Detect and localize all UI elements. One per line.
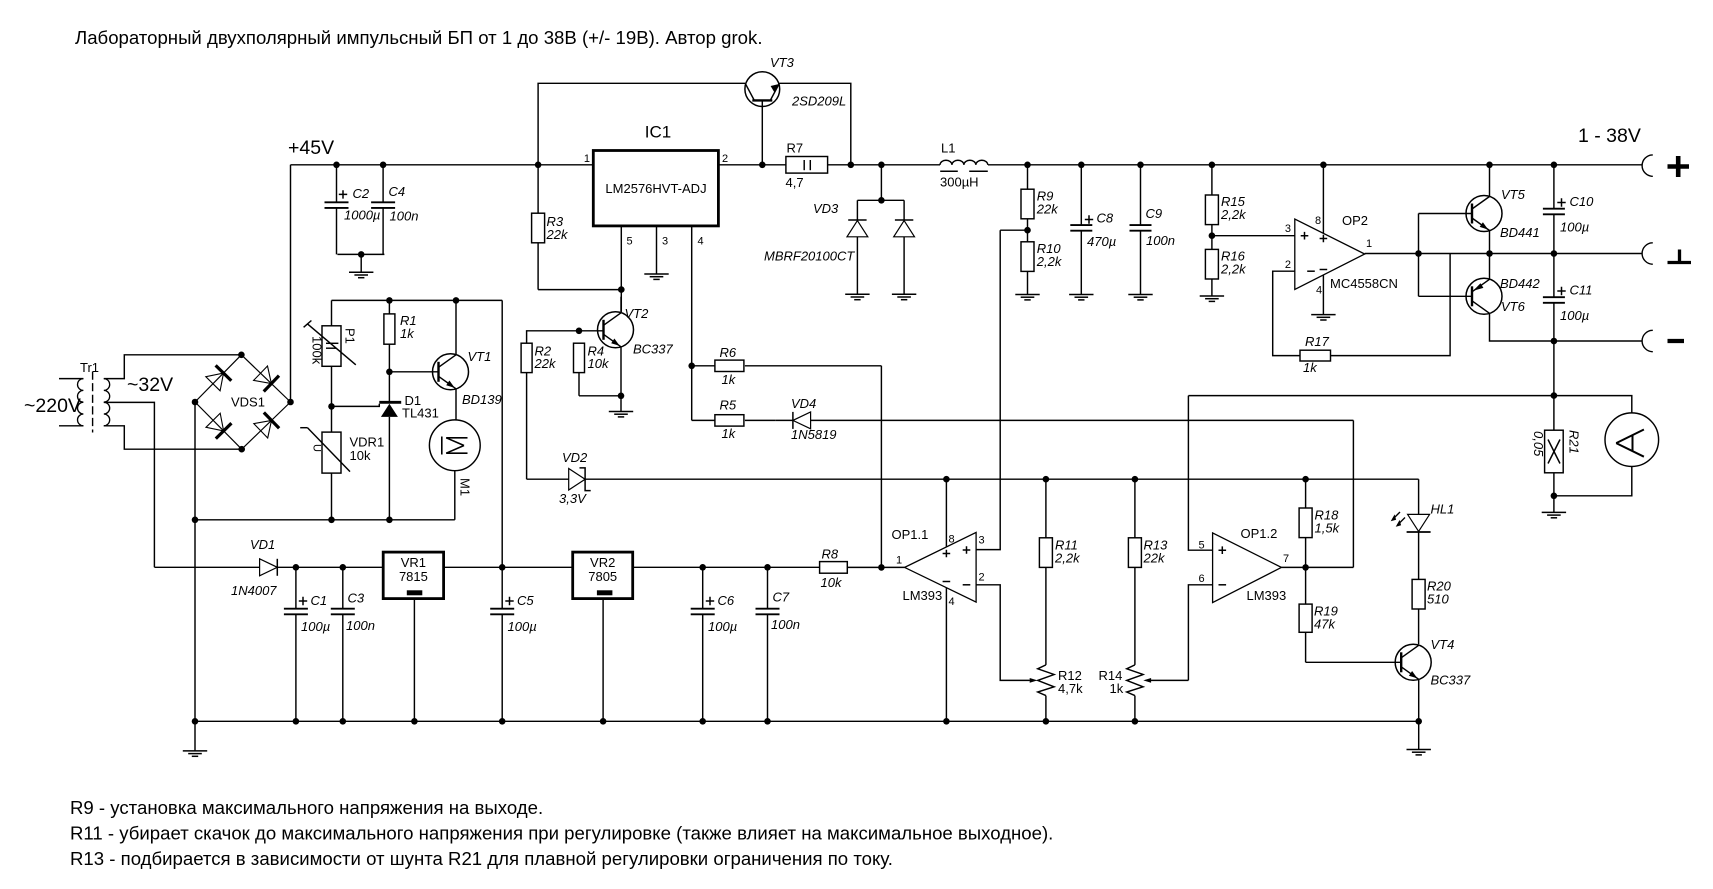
resistor R5 1k: [692, 398, 776, 442]
svg-text:U: U: [311, 444, 323, 452]
label 3,3V: [559, 491, 587, 506]
svg-text:R9 - установка максимального н: R9 - установка максимального напряжения …: [70, 797, 543, 818]
svg-text:MC4558CN: MC4558CN: [1330, 276, 1398, 291]
svg-text:22k: 22k: [1036, 202, 1059, 217]
svg-text:6: 6: [1199, 573, 1205, 585]
svg-text:L1: L1: [941, 141, 955, 156]
node IC1 pin5 wire: [618, 286, 625, 293]
wire +15V riser to P1 rail: [332, 300, 503, 567]
svg-text:LM393: LM393: [903, 588, 943, 603]
svg-text:BC337: BC337: [633, 342, 674, 357]
node VT5 emitter mid rail: [1486, 250, 1493, 257]
potentiometer P1 100k: [304, 300, 358, 406]
svg-text:470µ: 470µ: [1087, 234, 1116, 249]
label TL431: [402, 406, 439, 421]
node C1 top: [293, 564, 300, 571]
note R13: [70, 848, 893, 869]
node R3 top / VT3 collector wire: [535, 162, 542, 169]
svg-text:1: 1: [896, 555, 902, 567]
wire VT1 base: [389, 371, 438, 373]
wire secondary center tap down to VD1 line: [104, 402, 155, 567]
pin 2 label OP1.1: [979, 572, 985, 584]
label VD3: [813, 201, 839, 216]
svg-text:100n: 100n: [771, 617, 800, 632]
svg-text:C3: C3: [348, 591, 365, 606]
label VD1: [250, 537, 275, 552]
pin 7 label OP1.2: [1283, 553, 1289, 565]
svg-text:BD139: BD139: [462, 392, 502, 407]
wire VT5 collector to rail: [1489, 165, 1491, 197]
resistor R8 10k: [820, 547, 905, 591]
node R15 top: [1209, 162, 1216, 169]
svg-text:1k: 1k: [722, 372, 737, 387]
svg-text:100n: 100n: [1146, 233, 1175, 248]
svg-text:VT4: VT4: [1431, 637, 1455, 652]
inductor L1 300uH: [940, 141, 988, 190]
resistor R15: [1205, 165, 1247, 250]
wire OP2 pin4 to ground: [1322, 275, 1324, 315]
svg-text:R5: R5: [720, 398, 737, 413]
node ground rail R12: [1043, 718, 1050, 725]
wire C2 C4 common to ground: [337, 251, 384, 272]
ground symbol VT2: [609, 396, 633, 417]
svg-text:22k: 22k: [1143, 551, 1166, 566]
svg-text:2SD209L: 2SD209L: [791, 94, 846, 109]
node VT5 collector: [1486, 162, 1493, 169]
svg-text:C9: C9: [1146, 206, 1163, 221]
svg-text:2: 2: [979, 572, 985, 584]
bridge node top: [238, 352, 245, 359]
resistor R4: [574, 343, 610, 372]
shunt regulator D1 TL431: [332, 372, 402, 520]
svg-text:VD3: VD3: [813, 201, 839, 216]
label VT2: [625, 306, 650, 321]
node D1 bottom rail: [386, 517, 393, 524]
label BD441: [1500, 225, 1540, 240]
svg-text:100n: 100n: [390, 209, 419, 224]
node ground rail OP1.1 pin4: [943, 718, 950, 725]
label HL1: [1431, 502, 1455, 517]
diode VD1 1N4007: [154, 559, 383, 576]
ground symbol R10: [1015, 295, 1039, 300]
svg-text:C4: C4: [389, 184, 406, 199]
capacitor C11 100u: [1543, 254, 1592, 342]
svg-text:2: 2: [722, 153, 728, 165]
diode VD4 1N5819: [775, 412, 1353, 429]
node IC1 pin4 / R6: [688, 363, 695, 370]
pin 3 label OP1.1: [979, 535, 985, 547]
svg-text:P1: P1: [343, 328, 358, 344]
ammeter PA1 wires: [1554, 396, 1632, 496]
svg-text:R6: R6: [720, 345, 737, 360]
svg-text:VT3: VT3: [770, 55, 795, 70]
ground symbol C8: [1069, 295, 1093, 300]
voltage regulator VR2 7805: [573, 552, 633, 599]
node R21 bottom: [1551, 493, 1558, 500]
node ground rail C3: [340, 718, 347, 725]
wire R7 to rail nodes: [828, 164, 940, 166]
wire VT5 base: [1419, 213, 1473, 215]
svg-text:+45V: +45V: [288, 137, 334, 159]
svg-text:7815: 7815: [399, 569, 428, 584]
ground symbol IC1 pin3: [644, 274, 668, 279]
label 1N5819: [791, 427, 837, 442]
wire VT3 emitter to R7 right node: [779, 83, 850, 165]
node VT1 collector: [453, 297, 460, 304]
pin 1 label IC1: [584, 153, 590, 165]
label MBRF20100CT: [764, 249, 855, 264]
label OP2: [1342, 213, 1368, 228]
varistor VDR1 10k: [300, 406, 384, 519]
wire VT1 emitter to M1: [455, 389, 457, 420]
pin 2 label IC1: [722, 153, 728, 165]
resistor R19 47k: [1299, 567, 1338, 662]
wire M1 bottom to motor rail: [195, 471, 455, 520]
ground symbol C2 C4: [349, 272, 373, 277]
ammeter A: [1605, 413, 1659, 467]
wire R3 bottom to IC1 pin5: [538, 289, 621, 291]
svg-text:4: 4: [698, 236, 704, 248]
wire VT2 base: [579, 330, 604, 332]
svg-text:Лабораторный двухполярный импу: Лабораторный двухполярный импульсный БП …: [75, 27, 763, 48]
svg-text:R8: R8: [822, 547, 839, 562]
svg-text:1N5819: 1N5819: [791, 427, 837, 442]
svg-text:LM393: LM393: [1247, 588, 1287, 603]
node C3 top: [340, 564, 347, 571]
ground symbol VT4: [1407, 721, 1431, 755]
ground symbol main: [183, 721, 207, 756]
svg-text:~220V: ~220V: [24, 395, 81, 417]
pin 4 label IC1: [698, 236, 704, 248]
pin 6 label OP1.2: [1199, 573, 1205, 585]
svg-text:100µ: 100µ: [508, 619, 537, 634]
wire OP1.2 pin6 down: [1188, 585, 1212, 681]
resistor R7 4,7: [786, 141, 828, 191]
pin 5 label IC1: [627, 236, 633, 248]
node C11 bottom minus rail: [1551, 338, 1558, 345]
resistor R11 2,2k: [1039, 479, 1081, 665]
pin 1 label OP1.1: [896, 555, 902, 567]
ground symbol OP2: [1311, 315, 1335, 320]
svg-text:R21: R21: [1567, 430, 1582, 454]
svg-text:C6: C6: [718, 593, 735, 608]
pin 3 label IC1: [662, 236, 668, 248]
terminal minus output: [1642, 330, 1653, 351]
label BD442: [1500, 276, 1541, 291]
svg-text:VR1: VR1: [401, 555, 426, 570]
node VT4 emitter: [1415, 718, 1422, 725]
svg-text:VT1: VT1: [468, 349, 492, 364]
wire VR1 output: [444, 566, 573, 568]
node OP1.1 pin8 rail: [943, 476, 950, 483]
label VT4: [1431, 637, 1455, 652]
wire VR1 ground pin: [413, 599, 415, 722]
svg-text:4: 4: [1316, 285, 1322, 297]
svg-text:R17: R17: [1305, 334, 1330, 349]
terminal common output: [1642, 243, 1653, 264]
svg-text:100k: 100k: [310, 336, 325, 365]
wire VT4 emitter to ground rail: [1418, 679, 1420, 721]
capacitor C8 470u: [1070, 165, 1116, 295]
wire R2 top corner: [527, 331, 579, 479]
capacitor C1 100u: [284, 567, 330, 721]
voltage regulator VR1 7815: [383, 552, 443, 599]
motor M1: [429, 420, 480, 496]
svg-text:10k: 10k: [821, 575, 843, 590]
label +45V: [288, 137, 334, 159]
label 1N4007: [231, 583, 277, 598]
wire VT1 collector to rail: [455, 300, 457, 355]
transformer Tr1 secondary winding: [104, 379, 110, 426]
svg-text:1: 1: [584, 153, 590, 165]
node VD3 branch: [878, 162, 885, 169]
bridge VDS1 diode top-right: [241, 355, 290, 402]
svg-text:1k: 1k: [400, 326, 415, 341]
resistor R6 1k: [692, 345, 882, 387]
wire OP1.2 pin6 to R14 wiper: [1143, 678, 1188, 683]
shunt resistor R21 0,05: [1531, 430, 1582, 473]
label VT1: [468, 349, 492, 364]
node C9 top: [1137, 162, 1144, 169]
wire sense line to OP1.2 riser: [1188, 395, 1554, 397]
wire VT6 collector to minus rail: [1490, 313, 1643, 341]
node R1 top: [386, 297, 393, 304]
node OP2 pin8: [1320, 162, 1327, 169]
bridge VDS1 diode top-left: [195, 355, 241, 402]
node bridge-left / motor rail: [192, 517, 199, 524]
svg-text:100n: 100n: [346, 618, 375, 633]
wire R21 bottom to ground: [1553, 473, 1555, 513]
svg-text:LM2576HVT-ADJ: LM2576HVT-ADJ: [605, 181, 706, 196]
svg-text:C8: C8: [1097, 211, 1114, 226]
node ground rail C5: [499, 718, 506, 725]
node C4 top: [380, 162, 387, 169]
wire VT6 emitter to mid rail: [1489, 254, 1491, 280]
label BC337 VT2: [633, 342, 674, 357]
wire VT3 collector to +45V node: [538, 83, 745, 165]
label BD139: [462, 392, 502, 407]
wire R9 R10 junction stub to OP1.1 pin3 riser: [1000, 229, 1027, 231]
wire VT6 base: [1419, 295, 1473, 297]
wire bridge left node down: [194, 402, 196, 721]
svg-text:VD4: VD4: [791, 396, 816, 411]
capacitor C7 100n: [756, 567, 800, 721]
svg-text:4,7: 4,7: [786, 175, 804, 190]
label 1 - 38V: [1578, 125, 1641, 147]
svg-text:3: 3: [662, 236, 668, 248]
label ~220V: [24, 395, 81, 417]
node P1 bottom VDR1 top: [328, 403, 335, 410]
label MC4558CN: [1330, 276, 1398, 291]
bridge node bottom: [238, 446, 245, 453]
node ground rail VR2: [600, 718, 607, 725]
svg-text:100µ: 100µ: [708, 619, 737, 634]
svg-text:C5: C5: [517, 593, 534, 608]
svg-text:C10: C10: [1570, 194, 1595, 209]
wire L1 to output rail: [988, 164, 1642, 166]
svg-text:510: 510: [1427, 592, 1449, 607]
svg-text:TL431: TL431: [402, 406, 439, 421]
svg-text:22k: 22k: [546, 227, 569, 242]
svg-text:5: 5: [627, 236, 633, 248]
symbol plus terminal: [1668, 156, 1690, 177]
wire IC1 pin3 to ground: [656, 226, 658, 274]
svg-text:1k: 1k: [722, 426, 737, 441]
resistor R18 1,5k: [1299, 479, 1340, 567]
wire OP2 pin8 to rail: [1322, 165, 1324, 234]
svg-text:1k: 1k: [1303, 360, 1318, 375]
resistor R20 510: [1412, 579, 1452, 645]
transistor VT1 BD139: [433, 354, 469, 390]
svg-text:7805: 7805: [588, 569, 617, 584]
node R13 top: [1132, 476, 1139, 483]
capacitor C10 100u: [1543, 165, 1594, 254]
node OP2 output / mid rail: [1415, 250, 1422, 257]
wire VR2 ground pin: [602, 599, 604, 722]
node ground rail C6: [699, 718, 706, 725]
transistor VT6 BD442: [1466, 278, 1502, 314]
svg-text:BD442: BD442: [1500, 276, 1541, 291]
wire R17 to mid rail: [1331, 254, 1451, 356]
symbol minus terminal: [1668, 339, 1685, 343]
transformer Tr1 core: [92, 372, 94, 433]
node R9 top: [1024, 162, 1031, 169]
transistor VT2 BC337: [598, 312, 634, 348]
node C7 top: [764, 564, 771, 571]
svg-text:R7: R7: [787, 141, 804, 156]
title text: [75, 27, 763, 48]
wire R15 R16 junction to OP2 pin3: [1212, 235, 1295, 237]
svg-text:HL1: HL1: [1431, 502, 1455, 517]
capacitor C4: [371, 165, 418, 255]
svg-text:1,5k: 1,5k: [1315, 521, 1341, 536]
label D1: [405, 393, 422, 408]
wire IC1 pin5 down to VT2 collector: [620, 226, 622, 312]
wire VR2 output: [633, 566, 820, 568]
wire OP2 pin2 to R17: [1273, 271, 1300, 355]
svg-text:1: 1: [1366, 238, 1372, 250]
svg-text:VT2: VT2: [625, 306, 650, 321]
resistor R1 1k: [384, 300, 417, 371]
label VT5: [1501, 187, 1526, 202]
wire VD3 branch down: [857, 165, 904, 201]
pin 8 label OP1.1: [949, 534, 955, 546]
node VT2 emitter ground: [618, 393, 625, 400]
node VT2 base R4 top: [576, 328, 583, 335]
resistor R17 1k: [1300, 334, 1331, 375]
svg-text:3: 3: [1285, 223, 1291, 235]
svg-text:10k: 10k: [350, 448, 371, 463]
bridge node right: [287, 399, 294, 406]
wire IC1 pin4 down: [691, 226, 693, 421]
svg-text:2: 2: [1285, 259, 1291, 271]
wire VD2 rail corner to HL1: [1418, 479, 1420, 514]
resistor R2: [521, 343, 557, 372]
node C6 top: [699, 564, 706, 571]
node C8 top: [1078, 162, 1085, 169]
resistor R16: [1205, 249, 1247, 297]
svg-text:100µ: 100µ: [1560, 308, 1589, 323]
svg-text:C2: C2: [353, 186, 370, 201]
bridge VDS1 label: [231, 395, 265, 410]
svg-text:0,05: 0,05: [1531, 431, 1546, 457]
svg-text:1000µ: 1000µ: [344, 208, 380, 223]
node R1 bottom VT1 base D1 cathode: [386, 369, 393, 376]
svg-text:Tr1: Tr1: [80, 360, 99, 375]
resistor R10: [1021, 241, 1063, 295]
svg-text:1N4007: 1N4007: [231, 583, 277, 598]
svg-text:R11 - убирает скачок до максим: R11 - убирает скачок до максимального на…: [70, 823, 1053, 844]
svg-text:1 - 38V: 1 - 38V: [1578, 125, 1641, 147]
bridge VDS1 diode bottom-left: [195, 402, 242, 449]
node OP1.1 output: [878, 564, 885, 571]
ground symbol VD3 left: [845, 294, 869, 299]
wire R4 bottom to VT2 emitter: [579, 373, 621, 396]
wire VT2 emitter down: [620, 347, 622, 396]
wire mid rail: [1419, 253, 1643, 255]
ground symbol VD3 right: [892, 294, 916, 299]
label OP1.1: [892, 527, 929, 542]
node R11 top: [1043, 476, 1050, 483]
node VT3 base: [759, 162, 766, 169]
node VD3 split: [878, 197, 885, 204]
diode VD3 right half: [894, 200, 915, 294]
label 2SD209L: [791, 94, 846, 109]
resistor R9: [1021, 165, 1059, 242]
svg-text:BD441: BD441: [1500, 225, 1540, 240]
rheostat R12 4,7k: [1038, 665, 1083, 721]
node C5 top: [499, 564, 506, 571]
svg-text:VR2: VR2: [590, 555, 615, 570]
note R11: [70, 823, 1053, 844]
label BC337 VT4: [1431, 673, 1472, 688]
svg-text:100µ: 100µ: [1560, 220, 1589, 235]
wire VT2 collector up: [620, 297, 622, 312]
label VT6: [1501, 299, 1526, 314]
svg-text:2,2k: 2,2k: [1220, 262, 1247, 277]
op-amp OP2 MC4558CN: [1295, 219, 1365, 290]
svg-text:OP1.2: OP1.2: [1241, 526, 1278, 541]
wire VT5 emitter to mid rail: [1489, 231, 1491, 254]
svg-text:BC337: BC337: [1431, 673, 1472, 688]
diode VD3 left half: [847, 200, 868, 294]
op-amp OP1.2 LM393: [1213, 533, 1282, 603]
wire OP1.1 pin4 to ground rail: [945, 588, 947, 721]
svg-text:10k: 10k: [588, 356, 610, 371]
capacitor C6 100u: [691, 567, 737, 721]
node C10 top: [1551, 162, 1558, 169]
wire OP1.1 pin2 to R12 wiper: [976, 585, 1037, 683]
node R15 R16 junction: [1209, 232, 1216, 239]
svg-text:M1: M1: [458, 478, 473, 496]
wire R6 to OP1.1 output riser: [880, 366, 882, 568]
resistor R3: [532, 165, 569, 290]
svg-text:MBRF20100CT: MBRF20100CT: [764, 249, 855, 264]
ground symbol R16: [1200, 296, 1224, 301]
svg-text:VD1: VD1: [250, 537, 275, 552]
zener diode VD2 3,3V: [569, 468, 591, 491]
wire OP1.2 output: [1281, 566, 1353, 568]
svg-text:2,2k: 2,2k: [1036, 254, 1063, 269]
wire secondary bottom to bridge bottom node: [104, 426, 242, 449]
label LM393 OP1.2: [1247, 588, 1287, 603]
svg-text:3,3V: 3,3V: [559, 491, 587, 506]
node ground rail R14: [1132, 718, 1139, 725]
svg-text:4: 4: [949, 596, 955, 608]
bridge node left: [192, 399, 199, 406]
pin 1 label OP2: [1366, 238, 1372, 250]
svg-text:100µ: 100µ: [301, 619, 330, 634]
